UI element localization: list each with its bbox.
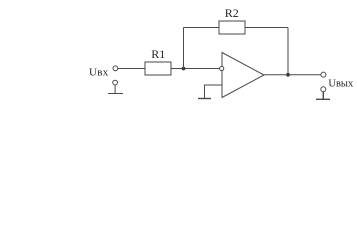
wire feedback top right segment xyxy=(245,27,288,29)
input ground xyxy=(108,85,123,93)
svg-text:Uвх: Uвх xyxy=(89,67,109,79)
resistor R2 xyxy=(219,21,245,34)
op-amp U1 triangle xyxy=(222,53,264,98)
output ground xyxy=(316,92,330,99)
output ground terminal circle xyxy=(321,87,326,92)
node junction input xyxy=(182,67,186,71)
wire feedback up from junction xyxy=(183,28,185,69)
wire feedback down to output node xyxy=(287,28,289,75)
svg-text:Uвых: Uвых xyxy=(328,79,354,90)
svg-text:R2: R2 xyxy=(225,6,239,20)
node junction output xyxy=(286,73,290,77)
wire output from op-amp xyxy=(264,74,321,76)
resistor R1 xyxy=(145,62,171,75)
input ground terminal circle xyxy=(113,80,118,85)
wire input terminal to R1 xyxy=(118,68,145,70)
op-amp inverting input circle xyxy=(220,66,224,70)
input terminal xyxy=(113,66,118,71)
wire non-inverting input xyxy=(205,85,223,99)
svg-text:R1: R1 xyxy=(151,47,165,61)
ground bar non-inverting xyxy=(198,98,211,100)
output terminal xyxy=(321,72,326,77)
wire feedback top left segment xyxy=(184,27,220,29)
wire R1 to op-amp inverting input xyxy=(171,68,220,70)
